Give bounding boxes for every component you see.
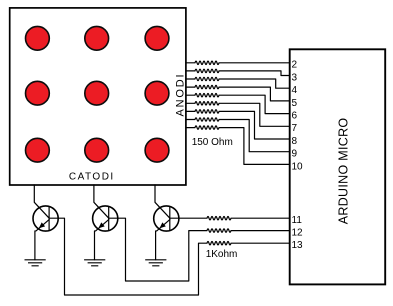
svg-text:150 Ohm: 150 Ohm xyxy=(192,137,233,148)
svg-text:6: 6 xyxy=(292,111,298,122)
svg-text:ARDUINO MICRO: ARDUINO MICRO xyxy=(337,118,351,225)
svg-text:1Kohm: 1Kohm xyxy=(206,249,238,260)
svg-text:13: 13 xyxy=(292,240,304,251)
svg-text:9: 9 xyxy=(292,149,298,160)
svg-text:7: 7 xyxy=(292,123,298,134)
svg-text:3: 3 xyxy=(292,72,298,83)
svg-text:ANODI: ANODI xyxy=(174,73,186,117)
svg-text:4: 4 xyxy=(292,85,298,96)
svg-text:2: 2 xyxy=(292,60,298,71)
svg-text:CATODI: CATODI xyxy=(69,171,115,182)
svg-text:8: 8 xyxy=(292,136,298,147)
svg-text:10: 10 xyxy=(292,161,304,172)
svg-text:5: 5 xyxy=(292,98,298,109)
svg-text:12: 12 xyxy=(292,228,304,239)
svg-text:11: 11 xyxy=(292,215,303,226)
